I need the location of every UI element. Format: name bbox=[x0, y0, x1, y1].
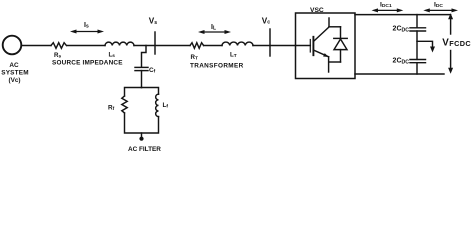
wire bbox=[22, 45, 52, 47]
wire (top connector) bbox=[329, 26, 341, 28]
svg-text:2CDC: 2CDC bbox=[393, 26, 410, 34]
wire bbox=[253, 45, 296, 47]
svg-text:SYSTEM: SYSTEM bbox=[1, 70, 28, 77]
diode D1 bottom stub bbox=[340, 50, 342, 62]
wire (filter branch) bbox=[142, 46, 147, 67]
diode D1 top stub bbox=[340, 27, 342, 39]
wire top DC rail bbox=[355, 14, 451, 16]
svg-text:AC FILTER: AC FILTER bbox=[128, 146, 161, 153]
current arrow IDC bbox=[429, 9, 453, 11]
node Vc bbox=[269, 29, 271, 56]
wire bottom DC rail bbox=[355, 73, 444, 75]
IGBT Q1 gate lead bbox=[296, 45, 311, 47]
capacitor Cf bbox=[135, 66, 148, 68]
midpoint tap arrowhead bbox=[430, 47, 435, 53]
capacitor 2CDC bottom bbox=[410, 59, 426, 61]
diode D1 cathode bar bbox=[334, 37, 347, 39]
midpoint tap wire bbox=[417, 41, 433, 47]
AC filter loop bbox=[125, 88, 142, 97]
resistor Rs bbox=[51, 43, 66, 49]
IGBT Q1 body bar bbox=[312, 37, 314, 55]
capacitor 2CDC top bbox=[410, 27, 426, 29]
wire bbox=[141, 71, 143, 88]
IGBT Q1 emitter bbox=[313, 50, 328, 57]
wire bbox=[134, 45, 190, 47]
wire bbox=[416, 31, 418, 59]
svg-text:Is: Is bbox=[84, 22, 89, 30]
current arrow IDC1 bbox=[377, 9, 398, 11]
AC filter terminal stub bbox=[141, 133, 143, 137]
IGBT Q1 collector bbox=[313, 27, 329, 42]
IGBT Q1 gate bar bbox=[309, 40, 311, 53]
VFCDC up arrow shaft bbox=[450, 18, 452, 34]
svg-text:TRANSFORMER: TRANSFORMER bbox=[190, 63, 244, 70]
inductor Lf bbox=[156, 94, 159, 116]
inductor LT bbox=[222, 42, 253, 45]
svg-text:VSC: VSC bbox=[310, 7, 324, 14]
wire (bottom connector) bbox=[329, 61, 341, 63]
IGBT Q1 collector stub bbox=[328, 18, 330, 27]
current arrow Is bbox=[76, 31, 98, 33]
node Vs bbox=[154, 32, 156, 54]
AC source (Vc) bbox=[3, 36, 22, 55]
wire bbox=[416, 15, 418, 28]
svg-text:2CDC: 2CDC bbox=[393, 58, 410, 66]
diode D1 triangle bbox=[334, 39, 347, 50]
IGBT Q1 emitter stub bbox=[328, 57, 330, 72]
AC filter terminal dot bbox=[139, 137, 143, 141]
svg-text:VFCDC: VFCDC bbox=[442, 37, 471, 48]
resistor RT bbox=[190, 43, 204, 49]
resistor Rf bbox=[122, 96, 127, 113]
svg-text:IL: IL bbox=[211, 24, 216, 32]
VFCDC down arrow shaft bbox=[450, 51, 452, 70]
svg-text:SOURCE IMPEDANCE: SOURCE IMPEDANCE bbox=[52, 59, 123, 66]
current arrow IL bbox=[204, 31, 226, 33]
inductor Ls bbox=[105, 42, 134, 45]
wire bbox=[67, 45, 105, 47]
IGBT Q1 emitter arrowhead bbox=[323, 53, 329, 57]
svg-text:AC: AC bbox=[9, 62, 19, 69]
wire bbox=[204, 45, 222, 47]
VFCDC up arrowhead bbox=[448, 13, 453, 19]
svg-text:(Vc): (Vc) bbox=[8, 77, 20, 84]
wire bbox=[125, 113, 159, 133]
wire bbox=[416, 63, 418, 74]
VSC converter box U1 bbox=[296, 13, 356, 79]
VFCDC down arrowhead bbox=[448, 68, 453, 74]
